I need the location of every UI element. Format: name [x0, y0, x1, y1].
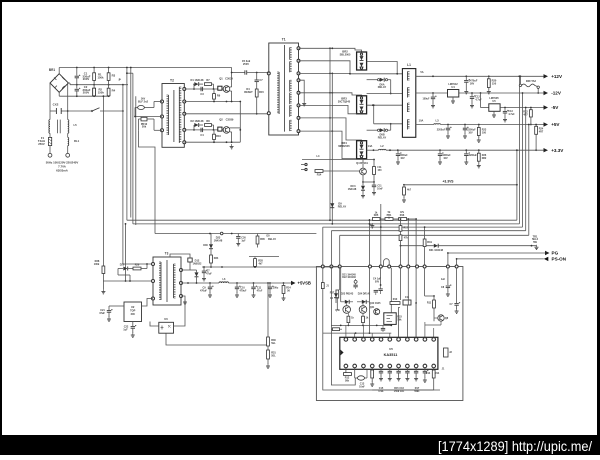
svg-text:470uF: 470uF	[200, 289, 208, 292]
svg-text:C14: C14	[426, 372, 431, 375]
arrow +3.3V	[544, 148, 549, 152]
wire	[331, 324, 391, 326]
resistor R24	[535, 125, 537, 127]
regulator U5 LM7905	[489, 104, 500, 112]
pin	[379, 265, 382, 268]
wire	[344, 378, 356, 385]
wire	[380, 218, 385, 220]
svg-text:T3: T3	[165, 252, 169, 256]
svg-text:R19: R19	[427, 241, 432, 244]
wire +3.3V rail	[367, 149, 374, 151]
junction	[525, 107, 527, 109]
svg-text:16V: 16V	[470, 81, 475, 85]
wire	[362, 175, 364, 182]
capacitor C15	[464, 125, 466, 128]
base network box	[218, 127, 222, 131]
pin	[161, 129, 164, 132]
wire	[117, 269, 119, 276]
resistor R34	[210, 263, 212, 267]
pin	[267, 72, 270, 75]
svg-text:R29: R29	[135, 263, 140, 266]
resistor R20	[488, 76, 490, 79]
resistor R44	[433, 368, 435, 370]
svg-text:4.7uF: 4.7uF	[508, 113, 515, 116]
capacitor C26	[203, 267, 205, 271]
pin	[406, 364, 410, 368]
wire +12V rail	[416, 75, 544, 77]
svg-text:4k7: 4k7	[407, 189, 412, 192]
wire	[130, 68, 132, 218]
svg-text:C7: C7	[259, 78, 263, 82]
wire	[49, 146, 51, 154]
svg-text:R10: R10	[393, 298, 398, 301]
IC U2 TOP200	[124, 302, 142, 322]
diode D1 1N4148	[193, 84, 195, 89]
wire	[345, 368, 347, 374]
capacitor C9	[432, 93, 434, 97]
diode D6B relay	[367, 129, 378, 131]
svg-text:+5VSB: +5VSB	[298, 281, 311, 286]
svg-text:R10: R10	[216, 134, 221, 138]
svg-text:RELAY: RELAY	[268, 238, 276, 241]
border right	[597, 0, 600, 455]
svg-text:+5V: +5V	[551, 122, 560, 127]
svg-text:1uF: 1uF	[123, 328, 128, 331]
pin	[161, 100, 164, 103]
wire	[340, 268, 342, 302]
wire	[230, 127, 241, 129]
svg-text:4k7: 4k7	[258, 262, 263, 265]
svg-text:L3: L3	[435, 119, 439, 123]
transistor Q7 C945	[359, 306, 367, 314]
wire -5V rail	[500, 107, 543, 109]
pin	[321, 265, 324, 268]
wire	[184, 113, 268, 115]
wire	[331, 268, 343, 385]
svg-text:D31 1N4148: D31 1N4148	[429, 249, 444, 252]
pin	[338, 265, 341, 268]
svg-text:SBL2005: SBL2005	[340, 53, 351, 57]
svg-text:IND TA2: IND TA2	[526, 79, 537, 83]
transformer T1	[269, 38, 299, 136]
svg-text:D36: D36	[203, 244, 208, 247]
wire	[68, 82, 70, 84]
wire	[59, 95, 110, 97]
transistor Q2 C3039	[223, 127, 230, 134]
pin	[362, 338, 366, 342]
svg-text:63/53mA: 63/53mA	[56, 169, 68, 173]
wire	[447, 268, 449, 285]
AC plug terminal	[48, 153, 52, 157]
svg-text:1uF: 1uF	[241, 239, 246, 242]
wire	[367, 104, 403, 106]
svg-text:200: 200	[131, 312, 136, 316]
pin	[423, 364, 427, 368]
capacitor C8	[465, 76, 467, 80]
svg-text:150k: 150k	[98, 90, 105, 94]
pin	[423, 338, 427, 342]
svg-text:R3: R3	[112, 74, 116, 78]
svg-text:30CTQ045: 30CTQ045	[338, 101, 351, 104]
svg-text:R16: R16	[400, 214, 405, 217]
capacitor C30	[382, 325, 384, 328]
diode D31	[434, 244, 438, 248]
svg-text:U5: U5	[389, 347, 393, 351]
wire TR1 row	[401, 245, 434, 247]
svg-text:+3.3VS: +3.3VS	[442, 180, 454, 184]
svg-text:-5V: -5V	[551, 105, 559, 110]
svg-text:PS-ON: PS-ON	[552, 257, 567, 262]
svg-text:200V: 200V	[83, 91, 90, 95]
svg-text:250V: 250V	[243, 62, 249, 66]
pin	[267, 112, 270, 115]
diode D2 1N4148	[193, 125, 195, 130]
resistor R26	[478, 150, 480, 153]
wire	[267, 346, 269, 350]
svg-text:R25: R25	[374, 214, 379, 217]
pin	[379, 364, 383, 368]
ground	[465, 89, 467, 92]
svg-text:150: 150	[377, 169, 382, 172]
inductor L2	[379, 148, 387, 151]
capacitor C5	[244, 70, 246, 74]
pin	[388, 364, 392, 368]
svg-text:KA3511: KA3511	[384, 353, 398, 357]
ground	[488, 89, 490, 92]
arrow PS-ON	[544, 257, 549, 261]
svg-text:5EL: 5EL	[271, 354, 276, 357]
pin	[297, 72, 300, 75]
svg-text:D24 DR142: D24 DR142	[358, 292, 371, 295]
svg-text:C3039: C3039	[225, 76, 233, 80]
capacitor C22	[132, 322, 134, 327]
svg-text:Q2: Q2	[219, 117, 223, 121]
wire	[380, 204, 382, 267]
pin	[432, 338, 436, 342]
transistor Q1 C3039	[223, 86, 230, 93]
resistor R29	[133, 267, 141, 270]
svg-text:T1: T1	[282, 38, 286, 42]
diode D6A relay	[367, 79, 378, 81]
wire	[456, 268, 458, 300]
wire	[456, 259, 458, 267]
svg-text:Q32 C945: Q32 C945	[370, 302, 382, 305]
wire	[58, 68, 60, 74]
arrow PG	[545, 251, 550, 255]
capacitor C19	[397, 150, 399, 153]
capacitor C13	[504, 108, 506, 111]
capacitor C34	[237, 234, 239, 237]
wire -5V link	[480, 93, 482, 108]
svg-text:D1 1N4148: D1 1N4148	[191, 78, 204, 82]
capacitor C17	[465, 150, 467, 153]
capacitor C33	[424, 368, 426, 371]
voltage selector switch SW1	[68, 110, 92, 112]
footer bar	[0, 435, 600, 455]
resistor R8	[205, 124, 212, 127]
wire	[400, 268, 402, 300]
wire PG	[448, 252, 545, 254]
svg-text:+3.3V: +3.3V	[551, 148, 564, 153]
wire	[230, 90, 232, 92]
fuse F1	[49, 137, 52, 145]
wire	[247, 72, 269, 74]
svg-text:Q30: Q30	[335, 309, 340, 312]
capacitor C27	[456, 300, 458, 303]
svg-text:100: 100	[482, 131, 487, 134]
wire	[230, 131, 232, 133]
capacitor C35	[353, 284, 357, 286]
svg-text:200V: 200V	[83, 77, 90, 81]
wire	[323, 268, 440, 390]
svg-text:LM7912: LM7912	[448, 82, 458, 86]
resistor R18	[424, 227, 426, 239]
wire	[184, 129, 224, 131]
jumper loop	[384, 259, 390, 266]
svg-text:470uF: 470uF	[239, 289, 247, 292]
resistor R28	[102, 266, 105, 274]
svg-text:R8: R8	[206, 119, 210, 123]
svg-text:1N5822: 1N5822	[193, 262, 202, 265]
svg-text:U2: U2	[131, 305, 135, 309]
svg-text:50V: 50V	[375, 280, 380, 283]
arrow -5V	[544, 105, 549, 109]
svg-text:47k: 47k	[404, 237, 409, 240]
arrow +12V	[544, 74, 549, 78]
diode D23	[220, 232, 223, 235]
inductor RL1	[68, 137, 69, 145]
pin	[305, 168, 307, 170]
wire	[144, 107, 154, 109]
resistor R17 stack	[400, 219, 402, 226]
resistor R25	[372, 218, 380, 221]
wire	[433, 315, 435, 321]
svg-text:R4: R4	[112, 89, 116, 93]
junction	[126, 72, 128, 74]
capacitor C32	[358, 376, 365, 380]
diode D12 1N5822	[181, 269, 197, 271]
wire	[415, 268, 417, 338]
diode D15	[362, 182, 364, 186]
pin	[344, 338, 348, 342]
junction	[126, 67, 128, 69]
pin	[330, 265, 333, 268]
wire	[184, 88, 224, 90]
wire	[299, 131, 357, 159]
svg-text:D2 1N4148: D2 1N4148	[191, 119, 204, 123]
svg-text:47k: 47k	[400, 211, 405, 214]
resistor R42	[344, 373, 352, 376]
svg-text:TOP: TOP	[130, 309, 135, 313]
resistor R31a	[362, 316, 365, 322]
capacitor	[398, 368, 400, 371]
diode D9 relay	[330, 203, 334, 207]
wire	[363, 368, 365, 370]
capacitor C4	[200, 128, 202, 132]
svg-text:R82: R82	[482, 157, 487, 160]
box C31	[403, 300, 411, 305]
vertical bus from BR2 input	[329, 48, 331, 220]
transistor Q6 C945	[343, 306, 351, 314]
pin	[183, 88, 186, 91]
svg-text:R37: R37	[330, 292, 335, 295]
capacitor C3	[200, 87, 202, 91]
wire mid feedback	[155, 233, 316, 235]
preset PR1	[385, 218, 393, 221]
svg-text:MBR2045: MBR2045	[338, 145, 350, 148]
node P	[122, 84, 124, 86]
wire	[380, 268, 382, 285]
pin	[180, 282, 183, 285]
svg-text:R14: R14	[435, 372, 440, 375]
resistor R16	[399, 218, 407, 221]
pin	[399, 265, 402, 268]
pin	[297, 116, 300, 119]
svg-text:R35: R35	[260, 238, 265, 241]
pin	[432, 364, 436, 368]
arrow +5V	[544, 122, 549, 126]
svg-text:4.7uF: 4.7uF	[475, 98, 482, 101]
border top	[0, 0, 600, 2]
junction	[130, 67, 132, 69]
svg-text:14A: 14A	[368, 144, 373, 148]
wire	[150, 322, 159, 327]
wire	[368, 219, 370, 267]
rectifier BR3 30CTQ045	[357, 96, 367, 114]
wire	[374, 123, 403, 125]
resistor R14	[315, 170, 323, 173]
pin	[152, 263, 155, 266]
IC U7 TL431 box	[384, 313, 396, 325]
capacitor C12	[471, 93, 473, 96]
pin	[297, 59, 300, 62]
transistor Q9	[438, 315, 444, 321]
svg-text:Q1: Q1	[219, 76, 223, 80]
transformer T3	[153, 252, 181, 306]
wire	[406, 305, 408, 337]
pin	[297, 47, 300, 50]
junction	[213, 129, 215, 131]
wire	[415, 219, 417, 267]
wire	[299, 80, 305, 101]
capacitor C16	[439, 150, 441, 153]
svg-text:5A: 5A	[420, 70, 423, 74]
capacitor	[406, 368, 408, 371]
wire	[174, 296, 186, 326]
wire	[49, 133, 51, 137]
arrow +5VSB	[291, 281, 296, 285]
bus wire E	[340, 234, 529, 236]
resistor R36	[403, 184, 405, 186]
svg-text:47uF: 47uF	[99, 312, 105, 315]
bus wire C	[323, 226, 523, 228]
wire	[407, 219, 409, 267]
svg-text:[1774x1289] http://upic.me/: [1774x1289] http://upic.me/	[438, 439, 592, 454]
wire	[299, 105, 357, 113]
pin	[152, 280, 155, 283]
wire	[299, 61, 351, 74]
resistor R22	[530, 108, 532, 110]
svg-text:47uF: 47uF	[257, 289, 263, 292]
capacitor C25	[253, 283, 255, 287]
resistor R32	[283, 283, 285, 286]
snubber resistor R15	[255, 89, 258, 97]
capacitor	[415, 368, 417, 371]
rectifier BR2 SBL2005	[357, 52, 367, 70]
svg-text:1uF: 1uF	[441, 278, 446, 281]
wire	[323, 266, 340, 268]
wire	[267, 359, 269, 364]
resistor R4	[108, 85, 110, 89]
junction	[67, 110, 69, 112]
junction	[522, 92, 524, 94]
wire	[184, 101, 240, 103]
svg-text:RELAY: RELAY	[338, 204, 347, 208]
wire +5VSB rail	[181, 282, 219, 284]
diode D24 symbol	[357, 301, 362, 303]
capacitor C1	[76, 68, 78, 76]
svg-text:C3: C3	[200, 92, 204, 96]
pin	[353, 364, 357, 368]
svg-text:L5: L5	[74, 123, 78, 127]
svg-text:D22 1N4148: D22 1N4148	[342, 276, 356, 279]
inductor L3	[434, 123, 441, 126]
svg-text:10nF: 10nF	[359, 385, 365, 388]
base network box	[218, 86, 222, 90]
svg-text:RESET: RESET	[244, 90, 253, 94]
capacitor C24	[236, 283, 238, 287]
pin	[446, 265, 449, 268]
svg-text:2200uF: 2200uF	[469, 154, 478, 157]
wire	[424, 322, 426, 337]
resistor R13	[239, 101, 241, 103]
capacitor C18	[373, 182, 375, 185]
svg-text:2200uF: 2200uF	[437, 129, 446, 132]
svg-text:50k: 50k	[142, 124, 147, 128]
wire	[447, 253, 449, 267]
wire	[267, 283, 269, 337]
wire	[354, 368, 356, 378]
wire	[367, 62, 398, 74]
wire	[299, 72, 351, 74]
pin	[455, 265, 458, 268]
wire	[268, 72, 270, 75]
transformer T2	[162, 79, 184, 148]
pin	[183, 128, 186, 131]
regulator U4 LM7912	[448, 90, 459, 98]
wire	[415, 303, 417, 337]
bus wire B	[133, 223, 520, 225]
pin	[407, 265, 410, 268]
junction	[256, 113, 258, 115]
resistor R3	[108, 68, 110, 73]
resistor R23	[478, 125, 480, 128]
resistor R2	[93, 85, 95, 89]
wire	[407, 268, 409, 305]
svg-text:CX2: CX2	[53, 103, 59, 107]
svg-text:T2: T2	[170, 79, 174, 83]
svg-text:D23 PB243: D23 PB243	[341, 292, 354, 295]
svg-text:L2: L2	[380, 144, 384, 148]
wire -12V rail	[416, 92, 448, 94]
pin	[370, 364, 374, 368]
transistor Q8 C945	[374, 309, 380, 315]
wire	[339, 268, 341, 290]
svg-text:PG: PG	[552, 251, 559, 256]
pin	[379, 338, 383, 342]
wire	[135, 96, 137, 225]
wire +3.3VS sense	[404, 184, 517, 186]
